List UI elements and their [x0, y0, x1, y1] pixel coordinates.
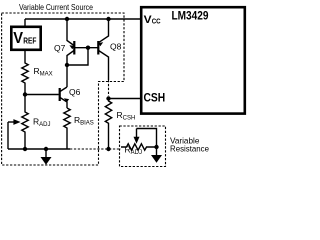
transistor Q8 (PNP, mirrored)	[98, 19, 109, 80]
node: RMAX / RADJ / Q6 base junction	[23, 92, 27, 96]
svg-text:REF: REF	[23, 36, 36, 45]
node: Q7 collector junction	[65, 63, 69, 67]
resistor RBIAS	[64, 108, 70, 149]
node: RADJ bottom junction	[23, 147, 27, 151]
potentiometer RADJ (variable resistance)	[121, 129, 157, 151]
wire: ground rail	[8, 148, 70, 150]
resistor RMAX	[22, 50, 28, 95]
ground symbol	[41, 149, 52, 165]
svg-text:CSH: CSH	[144, 92, 166, 105]
resistor RCSH	[105, 99, 111, 150]
svg-text:Q7: Q7	[54, 43, 66, 53]
potentiometer RADJ (left)	[8, 95, 28, 150]
svg-text:RADJ: RADJ	[33, 117, 50, 129]
svg-text:RMAX: RMAX	[34, 66, 53, 78]
IC LM3429	[141, 7, 245, 113]
wire: dashed connection Q8 collector to CSH node	[108, 80, 110, 96]
svg-text:V: V	[13, 30, 23, 47]
node: wiper / ground junction	[154, 145, 158, 149]
transistor Q7 (PNP)	[67, 19, 75, 65]
node: ground stem junction	[44, 147, 48, 151]
svg-text:RBIAS: RBIAS	[74, 115, 94, 127]
svg-text:Variable Current Source: Variable Current Source	[19, 2, 93, 12]
svg-text:Q8: Q8	[110, 42, 122, 52]
svg-text:RCSH: RCSH	[117, 110, 136, 122]
node: top rail / Q7 emitter	[65, 17, 69, 21]
node: top rail / Q8 emitter	[106, 17, 110, 21]
svg-text:Resistance: Resistance	[170, 143, 209, 153]
wire: CSH node to LM3429 pin	[109, 98, 141, 100]
wire: diode connection (base tie to Q7 collector)	[67, 48, 88, 65]
node: RCSH bottom junction	[106, 147, 110, 151]
transistor Q6 (NPN)	[60, 87, 69, 108]
ground symbol (variable resistance)	[151, 147, 162, 163]
enclosure: variable resistance dashed box	[120, 126, 166, 167]
voltage reference VREF box	[11, 27, 40, 50]
svg-text:CC: CC	[152, 17, 161, 26]
wire: Q7 collector to Q6 collector	[66, 65, 68, 87]
wire: Q6 base	[25, 94, 59, 96]
wire: VREF top lead	[24, 19, 26, 27]
svg-text:Q6: Q6	[69, 87, 81, 97]
wire: dashed ground connection to variable resistance	[70, 148, 121, 150]
svg-text:LM3429: LM3429	[172, 10, 209, 23]
node: base tie junction	[86, 46, 90, 50]
wire: Q7-Q8 base tie	[74, 47, 98, 49]
wire: VCC top rail to LM3429	[25, 18, 140, 20]
enclosure: variable current source dashed box (L-shape)	[2, 13, 124, 165]
node: CSH node	[106, 96, 110, 100]
